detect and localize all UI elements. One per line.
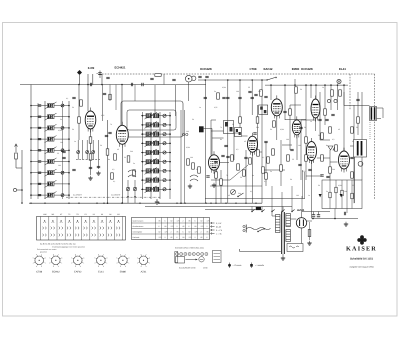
block diagram tube circle <box>180 253 183 256</box>
svg-text:2n: 2n <box>214 90 216 93</box>
capacitor <box>108 132 111 133</box>
coil <box>146 150 152 154</box>
keyboard contact <box>85 220 87 223</box>
ground center ladder <box>155 200 159 204</box>
svg-text:E1: E1 <box>85 213 87 216</box>
resistor <box>217 93 220 99</box>
svg-text:3k: 3k <box>318 134 320 137</box>
trimmer capacitor <box>61 104 64 107</box>
wire <box>262 169 285 171</box>
wire vertical <box>315 118 317 131</box>
wire <box>317 157 330 159</box>
wire AF long bus <box>205 198 305 200</box>
coil <box>146 114 152 118</box>
IF transformer T1 <box>224 121 234 134</box>
svg-text:2n: 2n <box>60 118 62 121</box>
power transformer HV secondary winding <box>286 214 291 227</box>
resistor <box>192 163 195 169</box>
wire left ladder row <box>31 138 69 140</box>
keyboard contact <box>44 220 46 223</box>
svg-text:70: 70 <box>220 126 222 129</box>
wire dash-dot calibration line <box>66 196 160 198</box>
wire keyboard column <box>72 217 74 241</box>
wire vertical <box>239 80 241 128</box>
pilot lamp <box>334 99 337 102</box>
svg-text:0,5M: 0,5M <box>186 146 190 149</box>
wire center ladder rail <box>169 112 171 199</box>
svg-text:Drucktastenaggregat von hinten: Drucktastenaggregat von hinten gesehen <box>52 246 85 249</box>
wire dial pulley down <box>188 82 190 101</box>
trimmer capacitor <box>163 133 166 136</box>
wire center ladder row <box>141 133 171 135</box>
keyboard contact <box>100 234 104 237</box>
svg-text:50: 50 <box>72 106 74 109</box>
svg-text:92: 92 <box>195 225 197 228</box>
svg-text:= Chassis: = Chassis <box>233 264 242 267</box>
svg-text:50: 50 <box>356 126 358 129</box>
svg-text:92: 92 <box>171 220 173 223</box>
resistor <box>109 94 111 100</box>
ground arrow <box>340 194 343 197</box>
svg-text:6: 6 <box>195 220 196 223</box>
wire padder to rail <box>204 128 212 130</box>
variable core arrow <box>45 180 57 187</box>
svg-text:0,25: 0,25 <box>214 106 217 109</box>
wire rectifier anode up <box>301 212 303 218</box>
resistor <box>324 109 327 115</box>
wire dashed gang coupling <box>76 159 100 161</box>
block diagram tube circle <box>205 253 208 256</box>
wire <box>304 172 306 199</box>
svg-text:20k: 20k <box>332 168 335 171</box>
svg-text:Ausgabe vom August 1954: Ausgabe vom August 1954 <box>350 266 375 269</box>
svg-text:100: 100 <box>296 194 299 197</box>
coil <box>146 178 152 182</box>
resistor <box>335 187 337 193</box>
svg-text:92: 92 <box>201 220 203 223</box>
block diagram dial circle <box>199 257 204 262</box>
resistor <box>305 155 308 161</box>
svg-text:0,25: 0,25 <box>101 114 104 117</box>
wire bus <box>145 206 262 208</box>
wire vertical <box>220 170 222 203</box>
keyboard contact <box>75 227 79 230</box>
capacitor <box>38 150 41 151</box>
volume potentiometer <box>231 190 236 195</box>
svg-text:85: 85 <box>177 231 179 234</box>
block diagram signal arrow <box>186 259 198 261</box>
svg-text:5k: 5k <box>72 128 74 131</box>
trimmer capacitor <box>163 188 166 191</box>
block diagram tube circle <box>197 253 200 256</box>
svg-text:EM80: EM80 <box>120 271 127 274</box>
wire vertical <box>361 92 363 180</box>
tube V4 EAF42 IF <box>271 95 282 119</box>
wire vertical <box>310 85 312 98</box>
wire vertical <box>284 85 286 120</box>
svg-text:0,5M: 0,5M <box>58 129 62 132</box>
keyboard contact <box>43 227 47 230</box>
wire V2 cathode <box>121 144 123 203</box>
wire vertical <box>233 133 235 160</box>
tube socket AZ41 (bottom view) <box>137 253 150 268</box>
svg-text:85: 85 <box>171 236 173 239</box>
tube socket CT88 (bottom view) <box>33 253 46 268</box>
svg-text:K3: K3 <box>101 213 103 216</box>
wire center ladder row <box>141 152 171 154</box>
svg-text:85: 85 <box>189 220 191 223</box>
wire keyboard column <box>89 217 91 241</box>
capacitor <box>38 161 41 162</box>
wire V2 osc trimmer branch <box>134 180 136 203</box>
resistor <box>305 137 308 143</box>
legend note arrow <box>211 225 222 228</box>
wire left ladder row <box>31 194 69 196</box>
svg-text:100: 100 <box>186 130 189 133</box>
wire vertical <box>257 105 259 152</box>
wire IF feed <box>212 137 224 139</box>
svg-text:170: 170 <box>201 225 204 228</box>
resistor <box>220 179 223 185</box>
svg-text:6+99: 6+99 <box>88 66 95 70</box>
resistor <box>215 172 218 178</box>
svg-text:CT88: CT88 <box>203 267 207 270</box>
capacitor <box>38 116 41 117</box>
resistor <box>329 192 331 198</box>
resistor <box>329 167 332 173</box>
svg-text:20k: 20k <box>130 150 133 153</box>
svg-text:25: 25 <box>57 152 59 155</box>
wire <box>134 85 136 102</box>
dial pulley 2 <box>192 76 196 80</box>
wire EL41 grid <box>330 161 338 163</box>
svg-text:10k: 10k <box>344 190 347 193</box>
wire vertical <box>296 135 298 160</box>
variable core arrow <box>145 140 158 147</box>
block diagram left panel <box>175 252 178 263</box>
svg-text:1n: 1n <box>74 140 76 143</box>
keyboard contact <box>67 227 71 230</box>
wire vertical <box>337 85 339 110</box>
wire <box>282 254 284 256</box>
resistor <box>351 193 353 199</box>
variable core arrow <box>45 124 57 131</box>
dial indicator circles <box>182 133 188 135</box>
wire left ladder row <box>31 161 69 163</box>
svg-text:0,1: 0,1 <box>113 180 115 183</box>
capacitor <box>350 157 353 158</box>
capacitor <box>299 127 302 128</box>
tube V7 triode AF <box>209 151 220 173</box>
trimmer capacitor <box>61 194 64 197</box>
svg-text:KAISER: KAISER <box>346 246 377 253</box>
wire left ladder row <box>31 172 69 174</box>
ground arrow <box>319 194 322 197</box>
power transformer core <box>282 212 285 254</box>
svg-text:8n: 8n <box>326 144 328 147</box>
wire <box>107 120 109 203</box>
coil L4 <box>48 137 55 141</box>
wire left ladder rail <box>30 85 32 200</box>
wire <box>312 218 358 220</box>
resistor <box>267 157 270 163</box>
keyboard contact <box>92 234 96 237</box>
svg-text:170: 170 <box>171 225 174 228</box>
wire <box>37 103 39 199</box>
svg-text:EM80: EM80 <box>292 67 300 71</box>
svg-text:25: 25 <box>196 168 198 171</box>
capacitor <box>214 161 217 162</box>
wire <box>351 180 353 209</box>
wire center ladder rail <box>159 112 161 199</box>
trimmer capacitor <box>92 151 95 154</box>
wire vertical <box>294 79 296 120</box>
coil <box>153 141 159 145</box>
resistor R filter <box>308 230 311 237</box>
wire <box>291 207 293 212</box>
wire center ladder row <box>141 170 171 172</box>
capacitor <box>298 164 301 165</box>
wire switch to transformer <box>271 212 273 217</box>
variable core arrow <box>45 136 57 143</box>
capacitor <box>244 157 247 158</box>
svg-text:6: 6 <box>177 236 178 239</box>
capacitor <box>308 169 311 170</box>
svg-text:0,5M: 0,5M <box>280 128 284 131</box>
trimmer capacitor <box>163 114 166 117</box>
keyboard contact <box>52 220 54 223</box>
svg-text:85: 85 <box>201 236 203 239</box>
svg-text:85: 85 <box>183 225 185 228</box>
wire vertical <box>319 92 321 140</box>
coil <box>153 160 159 164</box>
wire AF line <box>210 185 262 187</box>
voltage table <box>132 218 210 240</box>
resistor <box>257 150 260 156</box>
wire <box>234 132 240 134</box>
variable core arrow <box>145 177 158 184</box>
wire padder branch <box>82 140 84 160</box>
wire HT rail <box>302 211 331 213</box>
ground <box>188 184 192 188</box>
wire <box>285 119 306 121</box>
svg-text:CT88: CT88 <box>36 271 43 274</box>
output transformer <box>370 107 377 121</box>
legend chassis dot <box>228 263 241 269</box>
wire HT supply bus <box>265 84 348 86</box>
capacitor <box>89 167 92 168</box>
wire vertical <box>210 120 212 155</box>
IF transformer T2 <box>235 128 242 137</box>
wire center ladder row <box>141 115 171 117</box>
resistor <box>335 145 338 151</box>
wire <box>156 199 158 201</box>
svg-text:0,3: 0,3 <box>332 138 334 141</box>
wire center ladder rail <box>150 112 152 199</box>
capacitor <box>238 97 241 98</box>
svg-text:EAF42: EAF42 <box>74 271 82 274</box>
rectifier tube AZ41 <box>296 218 306 228</box>
keyboard contact <box>51 234 55 237</box>
wire <box>341 180 343 209</box>
wire keyboard column <box>64 217 66 241</box>
wire vertical <box>353 105 355 203</box>
IF transformer T3 <box>259 105 268 115</box>
tube V2 ECH42 oscillator <box>116 122 128 148</box>
capacitor <box>251 97 254 98</box>
wire AF bus 3 <box>205 209 262 211</box>
coil <box>146 160 152 164</box>
capacitor <box>131 83 132 86</box>
wire <box>271 186 273 207</box>
svg-text:6: 6 <box>189 225 190 228</box>
keyboard contact <box>109 220 111 223</box>
svg-text:6: 6 <box>159 225 160 228</box>
svg-text:1n: 1n <box>308 194 310 197</box>
wire <box>343 92 345 106</box>
wire keyboard column <box>105 217 107 241</box>
capacitor coupling <box>142 83 143 86</box>
switch wafer arcs 2 <box>190 175 198 181</box>
keyboard contact <box>116 234 120 237</box>
capacitor <box>325 119 328 120</box>
svg-text:45: 45 <box>244 140 246 143</box>
svg-text:2: 2 <box>171 231 172 234</box>
capacitor <box>172 79 175 80</box>
svg-text:1n: 1n <box>310 120 312 123</box>
svg-text:2n: 2n <box>133 162 135 165</box>
wire <box>92 74 94 85</box>
wire <box>281 192 283 207</box>
wire left ladder row <box>31 183 69 185</box>
svg-text:AL-DRAHT: AL-DRAHT <box>73 194 83 197</box>
tube V8 EM80 tuning eye <box>311 96 320 122</box>
resistor <box>262 167 265 173</box>
svg-text:ELA BURGER CT88: ELA BURGER CT88 <box>179 267 195 270</box>
wire <box>291 186 293 207</box>
resistor <box>351 172 354 178</box>
resistor <box>243 170 246 176</box>
wire padder branch <box>98 140 100 160</box>
capacitor <box>356 99 359 100</box>
capacitor <box>264 96 267 97</box>
capacitor <box>206 176 209 177</box>
TA input arrow <box>15 144 18 152</box>
svg-text:5k: 5k <box>304 126 306 129</box>
svg-text:0,25: 0,25 <box>214 168 217 171</box>
svg-text:AZ41: AZ41 <box>297 208 305 212</box>
wire <box>290 104 301 106</box>
wire V1 cathode down <box>90 129 92 175</box>
wire <box>261 207 263 212</box>
trimmer capacitor <box>163 169 166 172</box>
svg-text:Schaltbild DX 1151: Schaltbild DX 1151 <box>350 258 374 261</box>
svg-text:25: 25 <box>292 158 294 161</box>
wire heater bus left <box>198 79 266 81</box>
svg-text:M1: M1 <box>117 213 120 216</box>
wire center ladder row <box>141 142 171 144</box>
capacitor <box>62 151 65 152</box>
svg-text:A3: A3 <box>109 213 111 216</box>
wire center ladder row <box>141 179 171 181</box>
wire <box>306 175 322 177</box>
tube V1 ECH42 mixer <box>85 108 96 133</box>
wire ground bus <box>29 202 262 204</box>
wire vertical <box>265 142 267 186</box>
svg-text:50: 50 <box>270 128 272 131</box>
svg-text:0,1: 0,1 <box>250 190 252 193</box>
wire dotted dial cord <box>369 122 371 140</box>
svg-text:= Lotstelle: = Lotstelle <box>255 264 265 267</box>
svg-text:10k: 10k <box>286 138 289 141</box>
capacitor <box>326 176 329 177</box>
trimmer capacitor <box>86 151 89 154</box>
svg-text:ECH421: ECH421 <box>115 66 126 70</box>
svg-text:170: 170 <box>189 236 192 239</box>
svg-text:92: 92 <box>189 231 191 234</box>
Kaiser quatrefoil emblem <box>357 235 366 244</box>
heater distribution box <box>287 244 303 252</box>
switch contact <box>251 210 254 213</box>
svg-text:50: 50 <box>318 184 320 187</box>
svg-text:2: 2 <box>207 225 208 228</box>
svg-text:0 = Ch: 0 = Ch <box>216 229 222 232</box>
wire <box>101 74 103 85</box>
mains voltage selector switch <box>266 77 276 81</box>
svg-text:70: 70 <box>312 160 314 163</box>
wire vertical <box>305 85 307 180</box>
resistor R TA <box>15 153 18 159</box>
svg-text:L4M: L4M <box>43 213 47 216</box>
wire vertical <box>245 150 247 203</box>
wire <box>78 85 80 140</box>
legend note arrow <box>211 232 222 235</box>
resistor <box>273 121 276 127</box>
wire <box>329 180 331 209</box>
svg-text:0,1 W: 0,1 W <box>216 222 221 225</box>
svg-text:70: 70 <box>110 123 112 126</box>
coil L9 <box>48 193 55 197</box>
keyboard contact <box>67 234 71 237</box>
resistor <box>133 170 136 176</box>
resistor dial <box>155 74 161 77</box>
capacitor <box>198 76 201 77</box>
svg-text:ECH42: ECH42 <box>52 271 60 274</box>
capacitor <box>38 138 41 139</box>
wire left ladder row <box>31 116 69 118</box>
ground padder <box>96 171 100 175</box>
coil L7 <box>48 171 55 175</box>
resistor <box>331 90 334 96</box>
trimmer capacitor <box>77 151 80 154</box>
wire keyboard column <box>113 217 115 241</box>
variable core arrow <box>145 186 158 193</box>
dial lamp <box>337 79 341 83</box>
svg-text:170: 170 <box>165 231 168 234</box>
svg-text:2: 2 <box>201 231 202 234</box>
svg-text:2a 2b 3a 3b 4a 5a 6a 6b 7a 8a: 2a 2b 3a 3b 4a 5a 6a 6b 7a 8a 9a 10a 11a <box>40 242 77 245</box>
wire heater tick <box>239 249 241 252</box>
coil <box>153 132 159 136</box>
coil <box>146 132 152 136</box>
keyboard contact <box>93 220 95 223</box>
wire EL41 plate to OT <box>343 148 345 151</box>
wire dashed vertical near EL41 <box>349 74 351 110</box>
resistor <box>237 164 240 170</box>
power transformer heater winding <box>286 230 291 242</box>
svg-text:41,43: 41,43 <box>216 225 222 228</box>
trimmer capacitor <box>163 151 166 154</box>
